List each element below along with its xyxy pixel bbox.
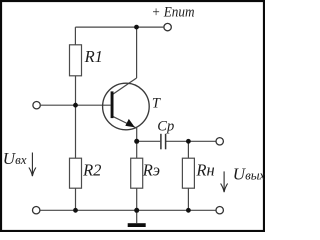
terminal circle input xyxy=(33,102,40,109)
terminal circle input bottom xyxy=(33,207,40,214)
wire Rn bottom xyxy=(187,188,189,210)
wire base row xyxy=(41,104,111,106)
arrow input Uvx xyxy=(29,153,36,177)
terminal circle supply xyxy=(164,23,171,30)
wire R1 top drop xyxy=(74,27,76,45)
terminal circle output top xyxy=(216,138,223,145)
svg-text:Rэ: Rэ xyxy=(142,161,160,180)
arrow output Uvyx xyxy=(221,171,228,192)
svg-text:Uвх: Uвх xyxy=(3,149,27,168)
ground symbol xyxy=(128,223,146,227)
wire collector vertical xyxy=(136,27,138,78)
resistor Rn xyxy=(182,158,194,188)
node dot bottom ground xyxy=(134,208,139,213)
node dot emitter xyxy=(134,139,139,144)
resistor R1 xyxy=(70,45,82,76)
node dot bottom R2 xyxy=(73,208,78,213)
transistor Q1 circle xyxy=(103,83,150,130)
transistor Q1 base bar xyxy=(111,91,114,118)
resistor Re xyxy=(131,158,143,188)
transistor Q1 emitter arrowhead xyxy=(125,119,135,127)
wire Re bottom xyxy=(136,188,138,210)
wire R2 bottom xyxy=(75,188,77,210)
wire R1 to base node xyxy=(75,76,77,105)
resistor R2 xyxy=(70,158,82,188)
node dot base xyxy=(73,103,78,108)
wire Rn top xyxy=(187,141,189,158)
capacitor Cp plates xyxy=(161,134,166,150)
wire R2 top xyxy=(75,105,77,158)
svg-text:Cр: Cр xyxy=(157,119,174,135)
wire collector diagonal xyxy=(113,78,137,94)
svg-text:Uвых: Uвых xyxy=(233,164,265,183)
wire Cp right to node xyxy=(166,140,216,142)
wire top rail xyxy=(75,26,163,28)
wire emitter vertical xyxy=(136,128,138,142)
node dot output top xyxy=(186,139,191,144)
wire Cp left xyxy=(137,140,161,142)
node dot bottom Rn xyxy=(186,208,191,213)
wire emitter diagonal xyxy=(113,116,136,128)
svg-text:T: T xyxy=(152,96,161,112)
node dot top rail xyxy=(134,25,139,30)
svg-text:R2: R2 xyxy=(82,161,101,180)
wire ground stem xyxy=(136,210,138,223)
svg-text:Rн: Rн xyxy=(195,161,214,180)
frame border xyxy=(1,1,264,231)
terminal circle output bottom xyxy=(216,207,223,214)
wire Re top xyxy=(136,141,138,158)
wire bottom rail xyxy=(40,209,215,211)
svg-text:+ Eпит: + Eпит xyxy=(152,5,195,21)
svg-text:R1: R1 xyxy=(84,47,103,66)
